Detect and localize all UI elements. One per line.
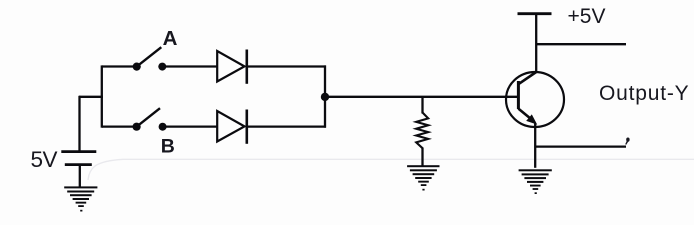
svg-text:5V: 5V <box>31 147 58 172</box>
diode D2 triangle <box>217 111 244 142</box>
switch A throw contact <box>158 63 166 71</box>
node junction dot <box>321 93 329 101</box>
wire +5V output rail <box>536 43 626 45</box>
svg-text:B: B <box>161 135 175 157</box>
wire battery stub <box>79 96 103 98</box>
power +5V T-bar <box>518 12 552 15</box>
diode D1 triangle <box>217 51 244 82</box>
resistor R1 zigzag <box>416 113 428 149</box>
battery B1 5V plates <box>61 152 96 188</box>
wire bottom rail left segment <box>102 125 136 127</box>
switch A blade <box>137 47 162 66</box>
switch B pole contact <box>133 123 141 131</box>
wire switch B to diode D2 <box>163 125 217 127</box>
wire top rail left segment <box>102 65 136 67</box>
wire resistor top lead <box>421 97 423 114</box>
switch A pole contact <box>133 63 141 71</box>
transistor Q1 body circle <box>506 72 564 127</box>
ground battery <box>64 186 97 211</box>
wire diode D2 to right bus <box>247 125 326 127</box>
stray apostrophe mark <box>625 138 629 145</box>
wire battery top lead <box>78 96 80 151</box>
svg-text:+5V: +5V <box>568 5 606 28</box>
ground emitter <box>519 169 552 194</box>
wire collector vertical <box>535 14 537 73</box>
wire right vertical bus <box>324 65 326 127</box>
wire left vertical bus <box>101 65 103 127</box>
wire diode D1 to right bus <box>247 65 326 67</box>
diode D1 cathode bar <box>246 50 249 84</box>
wire emitter vertical <box>534 124 536 168</box>
svg-text:A: A <box>163 27 178 50</box>
transistor Q1 emitter stroke <box>518 109 529 118</box>
svg-text:Output-Y: Output-Y <box>599 82 689 105</box>
switch B blade <box>137 108 160 127</box>
transistor Q1 base bar <box>517 81 520 109</box>
wire node to transistor base <box>325 96 518 98</box>
transistor Q1 emitter arrowhead <box>526 114 537 124</box>
wire resistor bottom lead <box>421 148 423 167</box>
switch B throw contact <box>159 123 167 131</box>
wire switch A to diode D1 <box>163 65 217 67</box>
wire emitter right rail <box>535 145 626 147</box>
transistor Q1 collector stroke <box>518 72 536 84</box>
ground resistor <box>407 165 439 190</box>
diode D2 cathode bar <box>246 110 249 144</box>
